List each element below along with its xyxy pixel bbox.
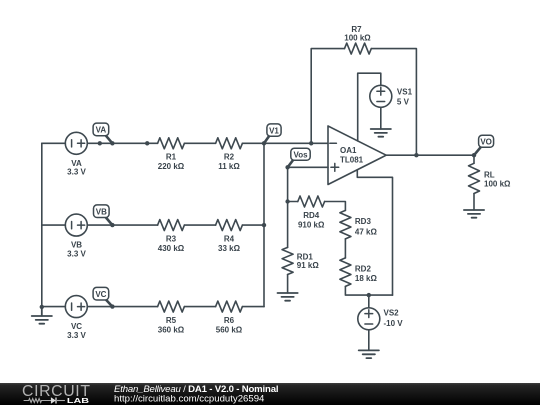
wire VS2 top [368, 295, 370, 308]
node VC [106, 300, 113, 307]
resistor RD2 [340, 258, 351, 287]
resistor R7 [345, 43, 372, 54]
wire VS2 to ground [368, 330, 370, 350]
resistor R1 [158, 138, 185, 149]
resistor R2 [216, 138, 243, 149]
junction node Vos [285, 165, 289, 169]
svg-text:R5: R5 [166, 316, 177, 325]
svg-text:VB: VB [71, 241, 82, 250]
svg-text:LAB: LAB [67, 397, 89, 405]
svg-text:VC: VC [95, 290, 106, 299]
svg-text:VC: VC [71, 322, 82, 331]
svg-text:430 kΩ: 430 kΩ [158, 244, 185, 253]
svg-text:11 kΩ: 11 kΩ [218, 162, 240, 171]
svg-text:R2: R2 [224, 153, 235, 162]
svg-text:18 kΩ: 18 kΩ [355, 274, 378, 283]
svg-text:VA: VA [71, 159, 82, 168]
resistor R3 [158, 220, 185, 231]
junction node VC anchor [110, 304, 114, 308]
wire vertical V1 bus [263, 143, 265, 306]
wire feedback down [371, 49, 416, 156]
svg-text:RD4: RD4 [303, 211, 320, 220]
wire left rail [41, 143, 43, 307]
voltage source VC [65, 296, 87, 318]
svg-text:OA1: OA1 [340, 146, 357, 155]
svg-text:360 kΩ: 360 kΩ [158, 326, 185, 335]
junction feedback tap [309, 141, 313, 145]
svg-text:100 kΩ: 100 kΩ [484, 180, 511, 189]
wire RD3-RD2 [344, 239, 346, 258]
voltage source VA [65, 132, 87, 154]
wire feedback up [311, 49, 344, 144]
resistor R5 [158, 301, 185, 312]
op-amp OA1 [328, 126, 386, 185]
voltage source VS1 [370, 85, 392, 107]
wire row2 right [242, 224, 264, 226]
wire row2 left [42, 224, 66, 226]
svg-text:-10 V: -10 V [384, 319, 404, 328]
junction VA source terminal [98, 141, 102, 145]
svg-text:RD2: RD2 [355, 265, 372, 274]
svg-text:VO: VO [480, 138, 492, 147]
wire RD2 bottom [345, 286, 392, 295]
junction VS2 top [367, 293, 371, 297]
junction node VO [472, 153, 476, 157]
wire RD4 left [288, 201, 298, 203]
svg-text:R6: R6 [224, 316, 235, 325]
svg-text:VB: VB [96, 207, 107, 216]
logo LAB [67, 397, 89, 405]
wire row3 left [42, 306, 66, 308]
wire row2 middle [87, 224, 157, 226]
junction row1 wire [145, 141, 149, 145]
node flags [93, 123, 494, 307]
svg-text:91 kΩ: 91 kΩ [297, 261, 320, 270]
node VA [106, 135, 113, 143]
wire R3-R4 [184, 224, 215, 226]
junction node VA anchor [110, 141, 114, 145]
svg-text:VS1: VS1 [397, 88, 413, 97]
svg-text:220 kΩ: 220 kΩ [158, 162, 185, 171]
voltage source VB [65, 214, 87, 236]
svg-text:http://circuitlab.com/ccpuduty: http://circuitlab.com/ccpuduty26594 [114, 394, 265, 405]
svg-text:Vos: Vos [293, 151, 308, 160]
footer bar [0, 383, 540, 405]
junction RD4-RD1 [285, 199, 289, 203]
logo resistor-diode glyph [24, 398, 65, 404]
svg-text:R4: R4 [224, 235, 235, 244]
svg-text:V1: V1 [269, 126, 279, 135]
wire RD1 bottom [287, 275, 289, 293]
svg-text:RD3: RD3 [355, 217, 372, 226]
resistor R4 [216, 220, 243, 231]
wire RL top [473, 155, 475, 163]
svg-text:5 V: 5 V [397, 97, 410, 106]
wire row1 left [42, 142, 66, 144]
wire VS1 to ground [380, 107, 382, 129]
node V1 [264, 136, 270, 144]
svg-text:3.3 V: 3.3 V [67, 168, 86, 177]
wire RD4 to RD3 [325, 202, 346, 211]
wire row1 middle [87, 142, 157, 144]
junction ground rail [40, 305, 44, 309]
svg-text:VA: VA [96, 126, 107, 135]
junction R7 output [414, 153, 418, 157]
wire R5-R6 [184, 306, 215, 308]
wire Vos down [287, 167, 289, 247]
wire row1 right to op-amp [242, 142, 328, 144]
svg-text:910 kΩ: 910 kΩ [298, 220, 325, 229]
resistor RD1 [282, 247, 293, 274]
svg-text:TL081: TL081 [340, 155, 364, 164]
resistor RD3 [340, 210, 351, 239]
junction node VB anchor [110, 223, 114, 227]
junction node V1 [262, 141, 266, 145]
wire R1-R2 [184, 142, 215, 144]
svg-text:RL: RL [484, 170, 495, 179]
node VB [106, 217, 113, 225]
ground RD1 [278, 293, 298, 301]
svg-text:560 kΩ: 560 kΩ [216, 326, 243, 335]
node VO [474, 147, 481, 155]
svg-text:R1: R1 [166, 153, 177, 162]
wire RL bottom [473, 194, 475, 210]
resistor RD4 [298, 196, 325, 207]
svg-text:R3: R3 [166, 235, 177, 244]
svg-text:100 kΩ: 100 kΩ [344, 34, 371, 43]
wire output [386, 154, 474, 156]
wire plus input [288, 166, 328, 168]
svg-text:VS2: VS2 [384, 309, 400, 318]
ground VS1 [371, 129, 391, 137]
wire V+ pin [358, 73, 381, 141]
ground RL [464, 210, 484, 218]
resistor R6 [216, 301, 243, 312]
ground VS2 [359, 350, 379, 358]
svg-text:33 kΩ: 33 kΩ [218, 244, 241, 253]
junction row2 bus [262, 223, 266, 227]
resistor RL [469, 163, 480, 193]
wire row3 right [242, 306, 264, 308]
svg-text:R7: R7 [351, 25, 362, 34]
wire row3 middle [87, 306, 157, 308]
voltage source VS2 [358, 308, 380, 330]
svg-text:3.3 V: 3.3 V [67, 331, 86, 340]
svg-text:47 kΩ: 47 kΩ [355, 227, 378, 236]
wire V- pin [357, 170, 392, 295]
node Vos [288, 160, 294, 168]
svg-text:3.3 V: 3.3 V [67, 249, 86, 258]
ground left [32, 307, 52, 324]
